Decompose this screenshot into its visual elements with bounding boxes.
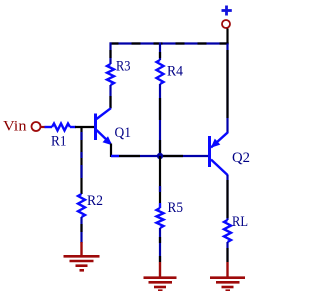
wire terminal to R1 xyxy=(45,126,53,128)
transistor Q2 base bar xyxy=(208,136,211,167)
wire top supply rail xyxy=(110,42,229,44)
ground G3 bar2 xyxy=(216,281,240,284)
power terminal + symbol xyxy=(222,6,232,16)
ground G2 stem xyxy=(159,262,161,278)
power terminal circle xyxy=(222,20,230,28)
wire R3 to Q1 collector xyxy=(109,85,111,109)
transistor Q2 emitter arrow (PNP) xyxy=(211,139,221,148)
transistor Q1 base bar xyxy=(94,114,97,141)
transistor Q1 collector lead xyxy=(97,108,111,119)
wire RL to ground xyxy=(226,242,228,262)
wire node to R2 xyxy=(80,126,82,194)
ground G3 bar3 xyxy=(222,286,234,289)
transistor Q1 emitter arrow xyxy=(103,136,113,145)
wire rail down to Q2 emitter xyxy=(226,44,228,134)
ground G1 bar1 xyxy=(64,255,100,258)
ground G2 bar2 xyxy=(149,281,173,284)
ground G1 bar4 xyxy=(80,269,85,272)
resistor R1 xyxy=(52,124,70,131)
wire R5 to ground xyxy=(159,228,161,262)
svg-text:Q1: Q1 xyxy=(115,125,132,141)
ground G2 bar1 xyxy=(144,276,177,279)
transistor Q2 emitter lead xyxy=(211,132,228,147)
wire Q1 emitter down xyxy=(110,144,112,158)
resistor R2 xyxy=(78,194,85,217)
wire node to R5 xyxy=(159,156,161,208)
wire rail to R4 xyxy=(159,43,161,61)
resistor R4 xyxy=(157,60,164,84)
ground G1 bar2 xyxy=(70,260,94,263)
resistor RL xyxy=(224,220,231,242)
svg-text:R1: R1 xyxy=(51,134,67,150)
ground G1 stem xyxy=(80,242,82,256)
svg-text:Vin: Vin xyxy=(3,119,27,135)
svg-text:R3: R3 xyxy=(116,59,131,75)
ground G2 bar3 xyxy=(154,286,166,289)
resistor R5 xyxy=(157,208,164,228)
ground G3 bar4 xyxy=(226,289,231,291)
wire Q2 collector to RL xyxy=(226,175,228,220)
svg-text:R5: R5 xyxy=(168,200,184,216)
input terminal circle Vin xyxy=(32,122,41,131)
junction node dot xyxy=(157,153,163,159)
svg-text:Q2: Q2 xyxy=(232,150,250,166)
wire rail to R3 xyxy=(109,43,111,65)
transistor Q2 collector lead xyxy=(211,160,228,176)
svg-text:RL: RL xyxy=(232,214,248,230)
wire R2 to ground xyxy=(80,217,82,243)
wire Vin terminal stub xyxy=(41,126,46,128)
wire terminal to rail xyxy=(226,29,228,44)
transistor Q1 emitter lead xyxy=(97,130,111,144)
wire R4 down to node xyxy=(159,84,161,156)
wire Q1 emitter to Q2 base xyxy=(111,155,208,157)
ground G2 bar4 xyxy=(158,289,163,291)
ground G3 stem xyxy=(226,262,228,278)
wire R1 to Q1 base xyxy=(70,126,94,128)
ground G1 bar3 xyxy=(76,264,88,267)
ground G3 bar1 xyxy=(210,276,245,279)
svg-text:R4: R4 xyxy=(167,64,183,80)
svg-text:R2: R2 xyxy=(87,193,103,209)
resistor R3 xyxy=(107,64,114,85)
